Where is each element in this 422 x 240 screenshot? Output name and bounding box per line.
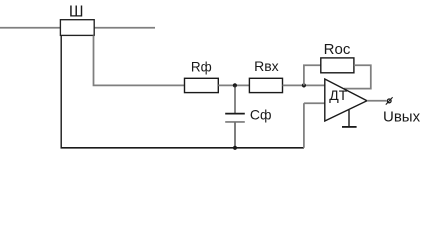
output terminal slash xyxy=(386,97,393,104)
shunt Ш body xyxy=(60,20,94,36)
label Uвых xyxy=(383,108,421,125)
svg-text:ДТ: ДТ xyxy=(329,87,347,103)
capacitor Сф bottom plate xyxy=(225,121,245,123)
svg-text:Ш: Ш xyxy=(69,3,84,20)
wire: main bus left of shunt xyxy=(0,27,60,29)
svg-text:Rф: Rф xyxy=(191,59,212,74)
op-amp ДТ triangle xyxy=(325,79,367,121)
wire: feedback up from junction to Rос left xyxy=(304,65,321,85)
wire: riser from bottom rail to lower input xyxy=(303,103,305,148)
label Rф xyxy=(191,59,212,74)
label Rос xyxy=(324,41,351,58)
wire: stem from junction down to Сф xyxy=(234,85,236,113)
wire: Rос right down to op-amp output side xyxy=(344,65,371,88)
wire: Сф bottom plate to rail xyxy=(234,123,236,148)
svg-text:Uвых: Uвых xyxy=(383,108,421,125)
label Сф xyxy=(250,107,272,123)
resistor Rф xyxy=(185,78,219,92)
node: junction of Сф with bottom rail xyxy=(233,146,237,150)
ground stem xyxy=(348,110,350,127)
wire: bottom common rail (dark) xyxy=(61,147,304,149)
svg-text:Rвх: Rвх xyxy=(254,58,279,74)
label Ш xyxy=(69,3,84,20)
wire: op-amp lower input from riser xyxy=(304,102,325,104)
label Rвх xyxy=(254,58,279,74)
label ДТ xyxy=(329,87,347,103)
wire: Rф to Rвх xyxy=(218,84,249,86)
wire: left sense lead of shunt (dark) xyxy=(60,36,62,148)
node: junction of Rф, Rвх and Сф xyxy=(233,83,237,87)
wire: Rвх to op-amp inverting input xyxy=(283,84,325,86)
capacitor Сф top plate xyxy=(225,113,245,115)
resistor Rвх xyxy=(249,78,282,92)
svg-text:Rос: Rос xyxy=(324,41,351,58)
node: junction of Rвх, op-amp input and Rос xyxy=(302,83,306,87)
wire: main bus right of shunt xyxy=(94,27,155,29)
wire: op-amp output xyxy=(367,100,386,102)
ground bar xyxy=(342,126,357,128)
svg-text:Сф: Сф xyxy=(250,107,272,123)
wire: right sense lead of shunt down and over to Rф xyxy=(94,36,185,86)
output terminal circle xyxy=(387,99,391,103)
resistor Rос xyxy=(321,58,354,73)
